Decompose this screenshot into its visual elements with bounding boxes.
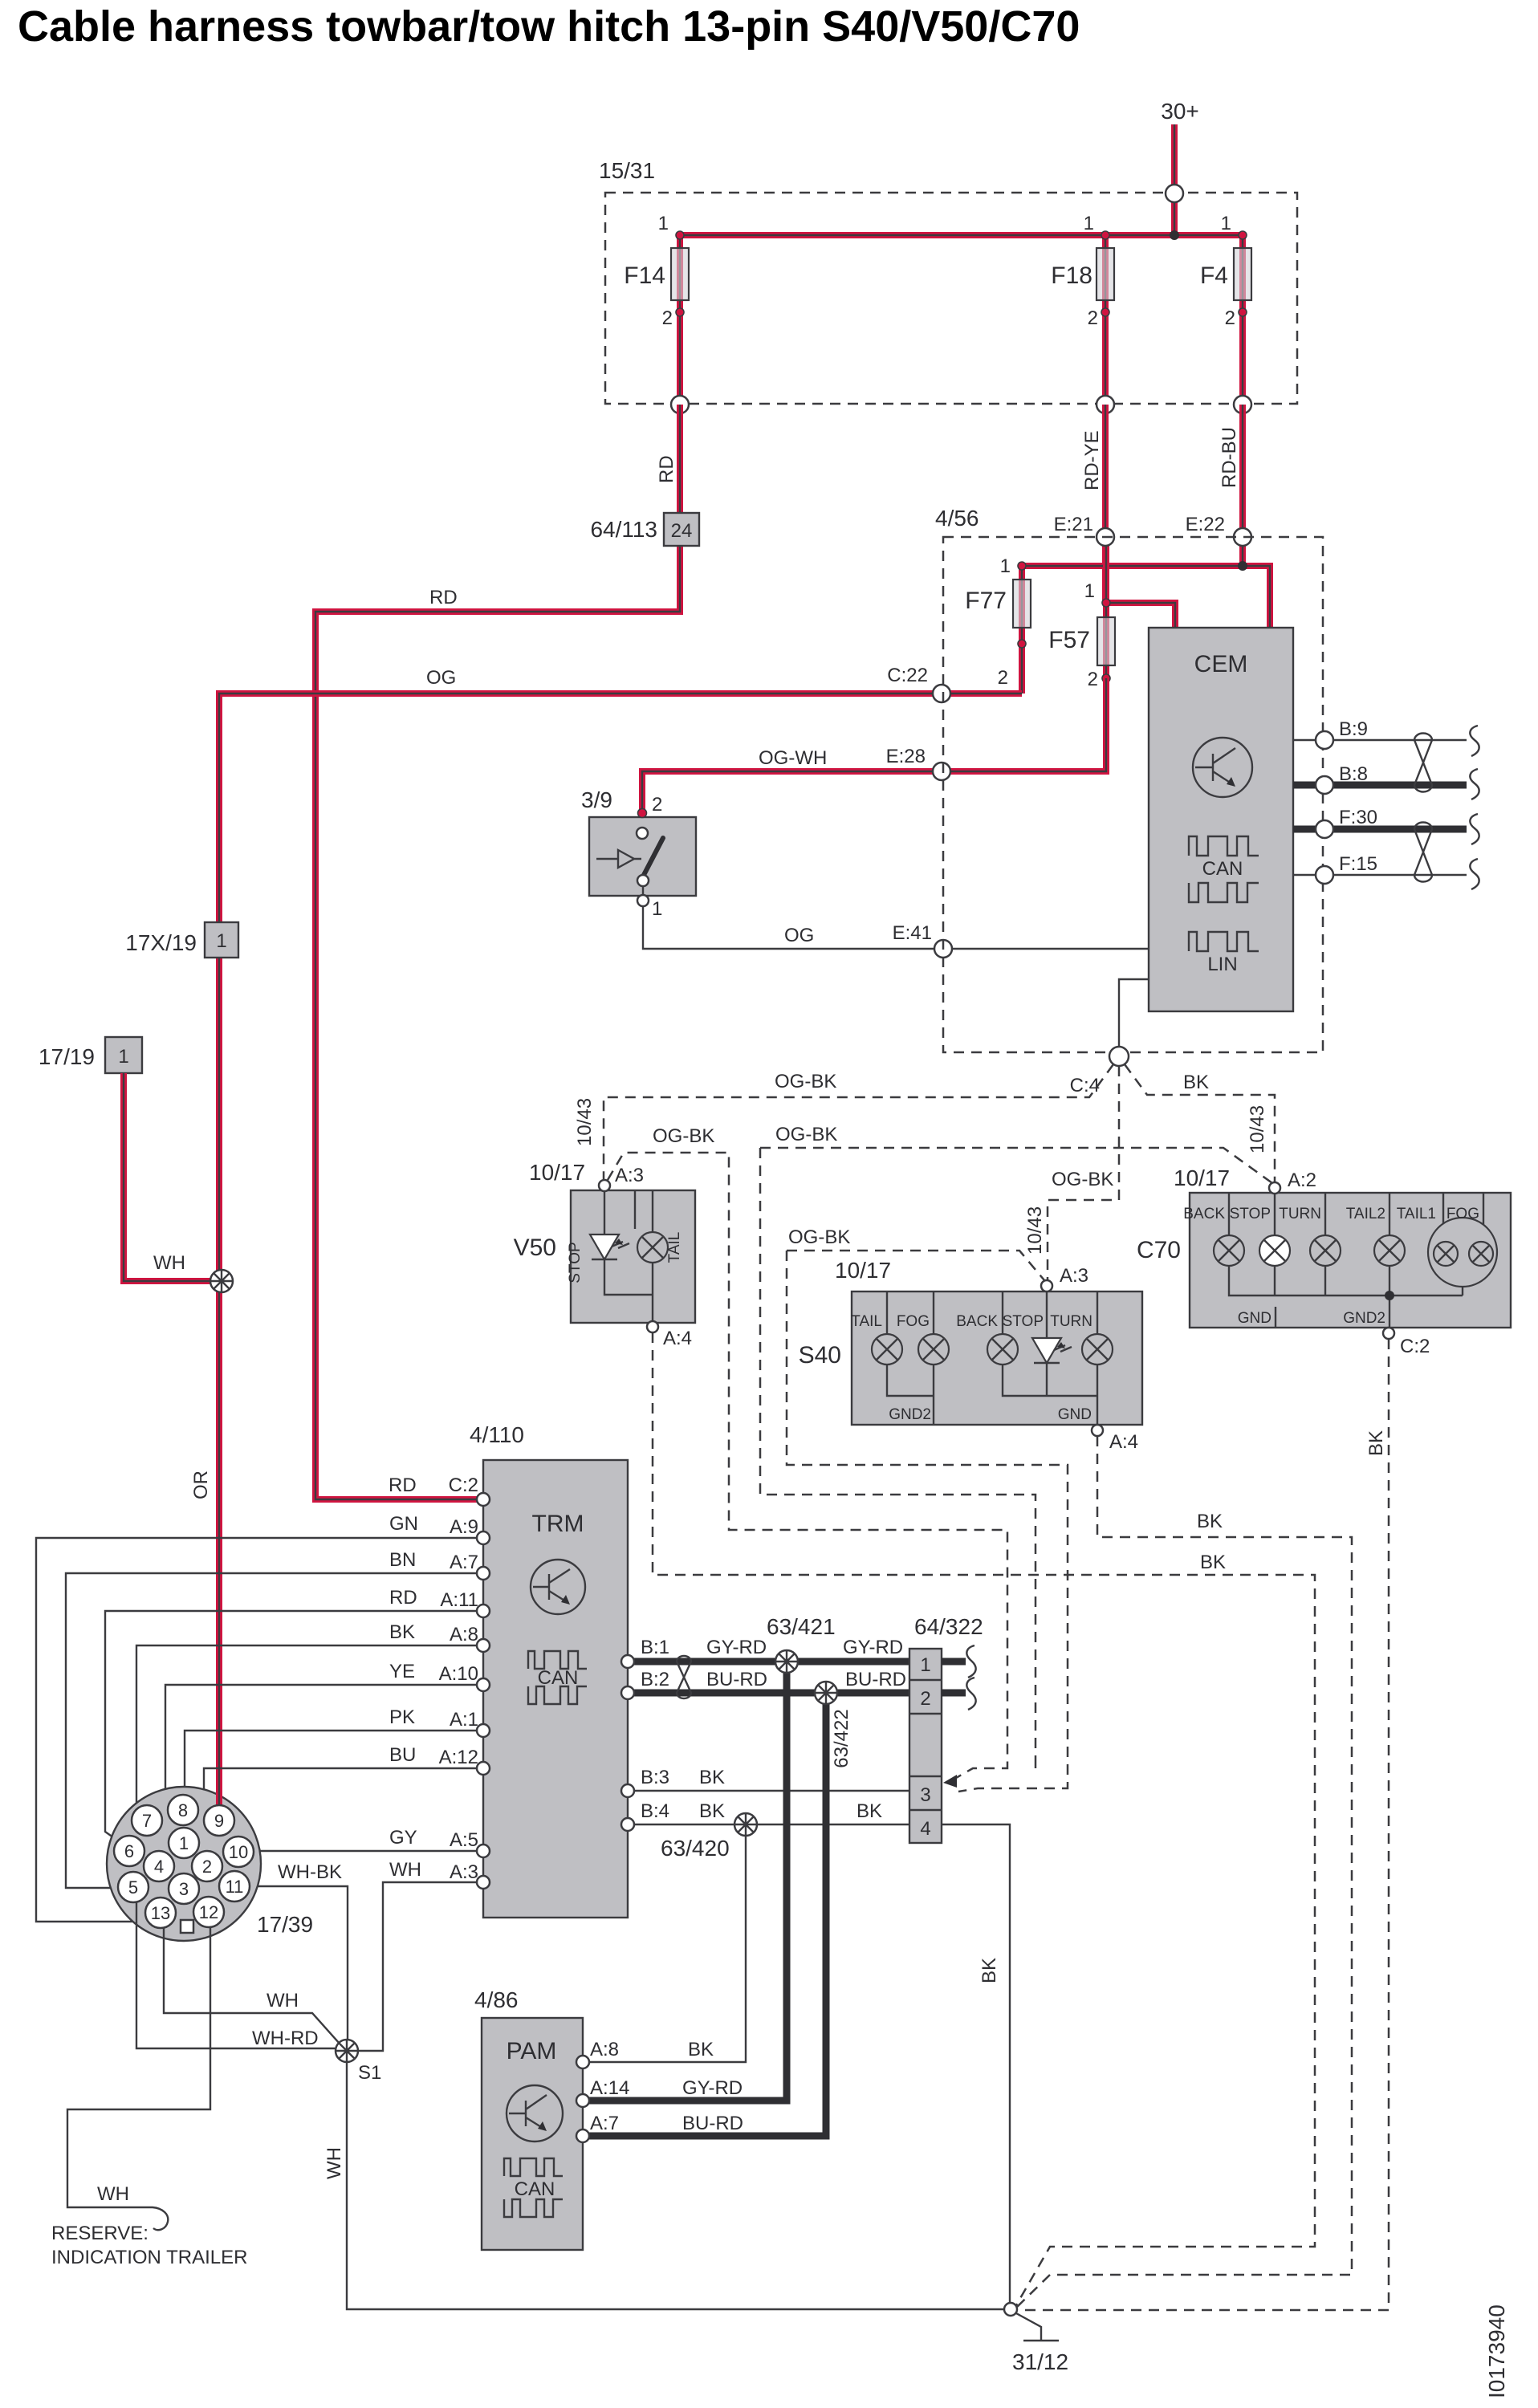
node PAM A:8 — [576, 2039, 714, 2068]
twisted pair B:9/B:8 — [1414, 734, 1432, 792]
svg-text:GY: GY — [389, 1827, 417, 1849]
svg-text:WH-RD: WH-RD — [252, 2028, 319, 2049]
pin 7 — [132, 1805, 162, 1836]
svg-text:A:12: A:12 — [439, 1747, 478, 1768]
svg-text:5: 5 — [128, 1877, 138, 1898]
node PAM A:14 — [576, 2077, 743, 2107]
svg-text:YE: YE — [389, 1661, 415, 1682]
keyway — [181, 1920, 193, 1933]
svg-text:OG: OG — [784, 925, 814, 946]
svg-text:4/86: 4/86 — [474, 1987, 519, 2012]
svg-text:CEM: CEM — [1194, 651, 1248, 677]
svg-text:BK: BK — [389, 1621, 415, 1643]
svg-text:2: 2 — [202, 1857, 212, 1877]
connector 17X/19 pin 1 — [125, 922, 238, 958]
wire red bus F77/F57 into CEM — [1022, 566, 1270, 628]
svg-text:6: 6 — [124, 1841, 134, 1861]
svg-text:TURN: TURN — [1050, 1313, 1092, 1330]
lamp pair TAIL1/FOG (C70) — [1397, 1206, 1497, 1287]
wire BN TRM A:7 to pin 5 — [66, 1549, 483, 1888]
wire YE TRM A:10 to pin 1 — [165, 1661, 483, 1832]
lamp cluster S40 10/17 — [799, 1258, 1142, 1453]
svg-text:OG-WH: OG-WH — [759, 747, 827, 769]
svg-text:63/420: 63/420 — [661, 1836, 730, 1861]
svg-text:E:28: E:28 — [886, 746, 926, 767]
connector 17/39 (13-pin socket) — [107, 1787, 313, 1941]
svg-text:10/43: 10/43 — [574, 1098, 596, 1146]
wire CEM B:8 (thick) — [1293, 763, 1467, 785]
lamp TAIL2 (C70) — [1346, 1206, 1405, 1266]
splice S1 — [336, 2040, 381, 2084]
node TRM A:5 — [477, 1845, 490, 1857]
svg-text:9: 9 — [214, 1811, 224, 1831]
wire BK S40 A:4 to ground (dashed) — [1017, 1436, 1352, 2307]
twisted pair B:1/B:2 — [677, 1656, 691, 1698]
svg-text:2: 2 — [1088, 669, 1098, 690]
svg-text:B:2: B:2 — [641, 1669, 669, 1690]
node E:22 — [1186, 514, 1251, 546]
junction dot 30+/bus — [1170, 230, 1179, 240]
svg-text:OG-BK: OG-BK — [653, 1125, 714, 1147]
svg-text:A:4: A:4 — [1109, 1431, 1138, 1453]
svg-text:2: 2 — [1225, 307, 1235, 329]
wire end F:15 — [1470, 859, 1479, 889]
svg-text:C:4: C:4 — [1070, 1075, 1100, 1096]
node TRM C:2 — [477, 1493, 490, 1506]
op-amp U2 TRM trailer module — [470, 1422, 628, 1918]
wire WH reserve (pin 12) — [51, 1927, 247, 2268]
svg-text:RD: RD — [389, 1587, 417, 1609]
svg-text:WH: WH — [323, 2147, 345, 2179]
pin 2 — [192, 1851, 222, 1881]
svg-text:4/56: 4/56 — [935, 506, 979, 531]
svg-text:64/113: 64/113 — [590, 517, 657, 542]
svg-text:A:1: A:1 — [450, 1709, 478, 1731]
svg-text:V50: V50 — [514, 1235, 556, 1261]
node 15/31 out F4 — [1234, 396, 1251, 413]
svg-text:RD: RD — [656, 455, 677, 483]
pin 10 — [223, 1837, 254, 1867]
svg-text:1: 1 — [1084, 213, 1094, 234]
diode (stop lamp driver) — [590, 1235, 619, 1259]
node B:9 — [1316, 731, 1333, 749]
svg-text:11: 11 — [226, 1877, 244, 1897]
svg-text:F4: F4 — [1200, 262, 1228, 289]
svg-text:C:2: C:2 — [449, 1474, 478, 1496]
svg-text:17/19: 17/19 — [39, 1044, 95, 1069]
svg-text:BK: BK — [1200, 1552, 1226, 1573]
lamp BACK (S40) — [956, 1313, 1018, 1365]
svg-text:STOP: STOP — [1003, 1313, 1044, 1330]
wire GY TRM A:5 to pin 10 — [254, 1827, 483, 1851]
wire OG-WH (E:28 run) — [642, 678, 1106, 813]
svg-text:STOP: STOP — [1230, 1206, 1271, 1222]
node F:15 — [1316, 866, 1333, 884]
wire RD F14 down — [315, 405, 680, 1499]
wire WH 17/19 to splice — [124, 1073, 222, 1281]
svg-text:8: 8 — [178, 1800, 188, 1820]
svg-text:1: 1 — [179, 1833, 189, 1853]
svg-text:GND2: GND2 — [889, 1406, 931, 1423]
svg-text:C:2: C:2 — [1400, 1336, 1430, 1357]
wire GY-RD TRM B:1 to 64/322 pin 1 (thick) — [628, 1637, 909, 1662]
svg-text:RD-BU: RD-BU — [1219, 427, 1240, 488]
svg-text:A:9: A:9 — [450, 1516, 478, 1538]
svg-text:E:22: E:22 — [1186, 514, 1225, 535]
node TRM A:8 — [477, 1639, 490, 1652]
svg-text:S1: S1 — [358, 2062, 381, 2084]
ground 31/12 — [1004, 2303, 1068, 2374]
svg-text:13: 13 — [151, 1903, 170, 1923]
svg-text:BK: BK — [1365, 1430, 1387, 1456]
connector 4/56 (dashed box) — [935, 506, 1323, 1052]
svg-text:2: 2 — [1088, 307, 1098, 329]
lamp TAIL (S40) — [851, 1313, 902, 1365]
svg-text:A:7: A:7 — [590, 2113, 619, 2134]
svg-text:3/9: 3/9 — [581, 787, 612, 812]
svg-text:BK: BK — [699, 1767, 725, 1788]
svg-text:12: 12 — [199, 1902, 218, 1922]
wire BK TRM A:8 to pin 7 — [136, 1621, 483, 1809]
svg-text:F:15: F:15 — [1339, 853, 1377, 875]
wire dashed into 64/322 pin 3 (arrow) — [943, 1763, 1068, 1792]
svg-text:1: 1 — [1084, 580, 1095, 602]
wire end B:9 (continuation squiggle) — [1470, 726, 1479, 756]
node TRM A:7 — [477, 1567, 490, 1580]
splice 63/420 — [661, 1813, 757, 1861]
svg-text:B:8: B:8 — [1339, 763, 1368, 785]
wire WH-RD pin 5 to S1 — [136, 1902, 336, 2049]
node TRM B:3 — [621, 1784, 634, 1797]
node TRM B:2 — [621, 1686, 634, 1699]
TRM CAN symbol — [528, 1651, 587, 1704]
lamp FOG (S40) — [897, 1313, 949, 1365]
connector 17/19 pin 1 — [39, 1037, 142, 1073]
wire red bus 30+ to fuses — [680, 232, 1243, 238]
node TRM A:3 — [477, 1876, 490, 1889]
junction dot RD-BU/bus — [1238, 561, 1247, 571]
svg-text:I0173940: I0173940 — [1484, 2304, 1509, 2398]
svg-text:10/17: 10/17 — [835, 1258, 891, 1283]
wire BU TRM A:12 to pin 2 — [204, 1744, 483, 1852]
PAM CAN symbol — [504, 2158, 563, 2217]
svg-text:LIN: LIN — [1207, 954, 1237, 975]
wire PK TRM A:1 to pin 8 — [185, 1706, 483, 1796]
wire OG-BK C:4 to S40 A:3 (dashed) — [1048, 1066, 1119, 1279]
svg-text:B:4: B:4 — [641, 1800, 669, 1822]
node E:21 — [1054, 514, 1114, 546]
svg-text:4/110: 4/110 — [470, 1422, 524, 1447]
svg-text:10/17: 10/17 — [529, 1160, 585, 1185]
wire OG-BK V50 A:3 second feed (dashed) — [608, 1125, 1007, 1763]
wire B:3 BK TRM to 64/322 pin 3 — [628, 1767, 909, 1791]
node TRM A:1 — [477, 1724, 490, 1737]
node E:28 — [933, 763, 950, 780]
wire end F:30 — [1470, 814, 1479, 844]
svg-text:10: 10 — [229, 1842, 248, 1862]
svg-text:1: 1 — [1000, 555, 1011, 577]
svg-text:B:9: B:9 — [1339, 718, 1368, 740]
wire OG-BK splice 10/43 to C70 A:2 (dashed) — [760, 1124, 1272, 1763]
lamp STOP (C70, white) — [1230, 1206, 1290, 1266]
node E:41 — [934, 940, 952, 958]
svg-text:A:3: A:3 — [615, 1165, 644, 1186]
connector 15/31 (dashed box) — [599, 158, 1297, 404]
wire BU-RD PAM A:7 riser (thick) — [583, 1693, 826, 2136]
svg-text:OG: OG — [426, 667, 456, 689]
lamp cluster C70 10/17 — [1137, 1165, 1511, 1357]
svg-text:3: 3 — [179, 1879, 189, 1899]
fuse F4 — [1200, 213, 1251, 405]
svg-text:WH-BK: WH-BK — [278, 1861, 342, 1883]
svg-text:GY-RD: GY-RD — [843, 1637, 903, 1658]
node C:22 — [933, 685, 950, 702]
svg-text:E:41: E:41 — [893, 922, 932, 944]
svg-text:B:3: B:3 — [641, 1767, 669, 1788]
svg-text:GND: GND — [1058, 1406, 1092, 1423]
wire CEM B:9 — [1293, 718, 1467, 740]
pin 8 — [168, 1795, 198, 1825]
wire WH pin 13 to S1 — [164, 1928, 340, 2044]
wire end pin 1 squiggle — [966, 1645, 975, 1678]
svg-text:A:5: A:5 — [450, 1829, 478, 1851]
node on 15/31 edge (30+) — [1166, 185, 1183, 202]
svg-text:TAIL1: TAIL1 — [1397, 1206, 1436, 1222]
svg-text:GN: GN — [389, 1513, 418, 1535]
wire BK 64/322 pin 4 to ground — [942, 1824, 1010, 2304]
svg-text:GY-RD: GY-RD — [682, 2077, 743, 2099]
fuse F57 — [1048, 537, 1175, 690]
svg-text:BK: BK — [699, 1800, 725, 1822]
svg-text:PK: PK — [389, 1706, 415, 1728]
op-amp U1 CEM control module — [1149, 628, 1293, 1011]
svg-text:BK: BK — [688, 2039, 714, 2060]
fuse F14 — [624, 213, 689, 405]
pin 12 — [193, 1897, 224, 1927]
pin 4 — [144, 1851, 174, 1881]
svg-text:2: 2 — [920, 1688, 930, 1710]
splice WH/OR — [210, 1270, 233, 1292]
svg-text:B:1: B:1 — [641, 1637, 669, 1658]
svg-text:A:14: A:14 — [590, 2077, 629, 2099]
svg-text:E:21: E:21 — [1054, 514, 1093, 535]
svg-text:31/12: 31/12 — [1012, 2349, 1068, 2374]
wire BK PAM A:8 riser — [583, 1824, 746, 2062]
wire RD-YE F18 to E:21/F57 — [1102, 405, 1109, 603]
wire 64/322 pin 1 out (thick) — [942, 1658, 966, 1666]
wire RD-BU F4 to E:22 — [1239, 405, 1246, 566]
wire BK C70 C:2 to ground (dashed) — [1018, 1339, 1389, 2310]
wire 64/322 pin 2 out (thick) — [942, 1690, 966, 1697]
svg-text:RESERVE:: RESERVE: — [51, 2223, 149, 2244]
svg-text:A:3: A:3 — [450, 1861, 478, 1883]
pin 9 — [204, 1805, 234, 1836]
lamp TURN (S40) — [1050, 1313, 1113, 1365]
svg-text:TURN: TURN — [1279, 1206, 1321, 1222]
wire BU-RD TRM B:2 to 64/322 pin 2 (thick) — [628, 1669, 909, 1693]
svg-text:CAN: CAN — [515, 2178, 555, 2200]
pin 1 — [169, 1828, 199, 1858]
svg-text:30+: 30+ — [1161, 99, 1199, 124]
twisted pair F:30/F:15 — [1414, 823, 1432, 882]
pin 3 — [169, 1873, 199, 1904]
node A:3 (V50) — [599, 1180, 610, 1191]
svg-text:TAIL2: TAIL2 — [1346, 1206, 1385, 1222]
svg-text:F77: F77 — [965, 588, 1007, 614]
svg-text:STOP: STOP — [567, 1242, 584, 1283]
node A:2 (C70) — [1269, 1182, 1280, 1194]
svg-text:F14: F14 — [624, 262, 665, 289]
wire WH-BK pin 11 to splice S1 — [250, 1861, 348, 2040]
wire end B:8 — [1470, 769, 1479, 799]
svg-text:BU-RD: BU-RD — [682, 2113, 743, 2134]
wire B:4 BK TRM to 64/322 pin 4 — [628, 1800, 909, 1824]
svg-text:GND: GND — [1238, 1310, 1271, 1327]
node A:4 (S40) — [1092, 1425, 1103, 1436]
svg-text:BK: BK — [1197, 1511, 1223, 1532]
wire OG switch to E:41/CEM — [643, 906, 1149, 949]
svg-text:FOG: FOG — [1446, 1206, 1479, 1222]
wire OG-BK splice 10/43 to S40 A:3 (dashed) — [787, 1226, 1068, 1784]
lamp BACK (C70) — [1183, 1206, 1244, 1266]
svg-text:2: 2 — [652, 794, 662, 816]
svg-text:7: 7 — [142, 1811, 152, 1831]
node F:30 — [1316, 820, 1333, 838]
svg-text:63/422: 63/422 — [831, 1709, 852, 1767]
wire BK V50 A:4 to ground (dashed) — [653, 1332, 1315, 2305]
svg-text:1: 1 — [1221, 213, 1231, 234]
node PAM A:7 — [576, 2113, 743, 2142]
svg-text:BACK: BACK — [956, 1313, 998, 1330]
wire WH TRM A:3 to splice S1 — [358, 1859, 483, 2051]
svg-text:BU-RD: BU-RD — [706, 1669, 767, 1690]
node B:8 — [1316, 776, 1333, 794]
wire CEM F:30 (thick) — [1293, 807, 1467, 829]
svg-text:A:11: A:11 — [440, 1589, 478, 1611]
svg-text:F18: F18 — [1051, 262, 1092, 289]
svg-text:TAIL: TAIL — [851, 1313, 882, 1330]
node 30+ supply — [1161, 99, 1199, 235]
svg-text:3: 3 — [920, 1784, 930, 1806]
svg-text:1: 1 — [920, 1654, 930, 1676]
CEM transistor icon — [1193, 738, 1252, 797]
svg-text:A:7: A:7 — [450, 1552, 478, 1573]
svg-text:4: 4 — [920, 1818, 930, 1840]
node A:3 (S40) — [1041, 1280, 1052, 1291]
svg-text:WH: WH — [153, 1252, 185, 1274]
svg-text:A:8: A:8 — [450, 1624, 478, 1645]
svg-text:24: 24 — [671, 520, 693, 542]
svg-text:WH: WH — [97, 2183, 129, 2205]
svg-text:Cable harness towbar/tow hitch: Cable harness towbar/tow hitch 13-pin S4… — [18, 2, 1080, 51]
svg-text:2: 2 — [998, 667, 1008, 689]
lamp TAIL (V50) — [637, 1232, 683, 1263]
wire OG (C:22 run) — [219, 667, 1022, 1806]
svg-text:63/421: 63/421 — [767, 1614, 836, 1639]
svg-text:WH: WH — [267, 1990, 299, 2011]
svg-text:OG-BK: OG-BK — [775, 1124, 837, 1145]
svg-text:GY-RD: GY-RD — [706, 1637, 767, 1658]
svg-text:RD-YE: RD-YE — [1081, 430, 1103, 490]
svg-text:C:22: C:22 — [887, 665, 928, 686]
svg-text:GND2: GND2 — [1343, 1310, 1385, 1327]
CEM LIN symbol — [1189, 932, 1259, 975]
pin 5 — [118, 1872, 149, 1902]
pin 11 — [219, 1871, 250, 1902]
svg-text:BK: BK — [979, 1958, 1000, 1983]
wire WH S1 to ground — [323, 2062, 1004, 2309]
wire CEM ground exit to C:4 — [1119, 979, 1149, 1052]
svg-text:TAIL: TAIL — [666, 1232, 683, 1263]
svg-text:10/43: 10/43 — [1024, 1206, 1046, 1255]
svg-text:2: 2 — [662, 307, 673, 329]
svg-text:BACK: BACK — [1183, 1206, 1225, 1222]
svg-text:WH: WH — [389, 1859, 421, 1881]
svg-text:BU-RD: BU-RD — [845, 1669, 906, 1690]
svg-text:17/39: 17/39 — [257, 1912, 313, 1937]
node 15/31 out F18 — [1097, 396, 1114, 413]
svg-text:C70: C70 — [1137, 1237, 1181, 1263]
lamp cluster V50 10/17 — [514, 1160, 695, 1349]
svg-text:OG-BK: OG-BK — [775, 1071, 836, 1092]
node TRM A:11 — [477, 1605, 490, 1617]
PAM transistor icon — [507, 2085, 563, 2142]
connector 64/113 pin 24 — [590, 513, 699, 546]
switch 3/9 (brake light switch) — [581, 787, 696, 920]
svg-text:OR: OR — [190, 1470, 212, 1499]
svg-text:BN: BN — [389, 1549, 416, 1571]
svg-text:1: 1 — [118, 1046, 128, 1068]
svg-text:PAM: PAM — [507, 2038, 557, 2064]
svg-text:1: 1 — [652, 898, 662, 920]
node TRM A:12 — [477, 1762, 490, 1775]
wire OG-BK C:4 to V50 A:3 (dashed) — [604, 1064, 1113, 1179]
CEM CAN symbol — [1189, 836, 1259, 902]
node TRM A:10 — [477, 1678, 490, 1691]
node 15/31 out F14 — [671, 396, 689, 413]
wire CEM F:15 — [1293, 853, 1467, 875]
svg-text:17X/19: 17X/19 — [125, 930, 197, 955]
wire BK C:4 to C70 A:2 (dashed) — [1125, 1064, 1275, 1182]
svg-text:RD: RD — [389, 1474, 417, 1496]
wire end pin 2 squiggle — [966, 1678, 975, 1710]
fuse F77 — [965, 555, 1031, 694]
svg-text:10/43: 10/43 — [1247, 1105, 1268, 1153]
diode STOP (S40) — [1003, 1313, 1072, 1363]
wire GY-RD PAM A:14 riser (thick) — [583, 1662, 787, 2101]
lamp TURN (C70) — [1279, 1206, 1341, 1266]
svg-text:CAN: CAN — [1202, 858, 1243, 880]
svg-text:INDICATION TRAILER: INDICATION TRAILER — [51, 2247, 247, 2268]
svg-text:4: 4 — [154, 1857, 164, 1877]
svg-text:F:30: F:30 — [1339, 807, 1377, 828]
node TRM B:1 — [621, 1655, 634, 1668]
svg-text:BK: BK — [856, 1800, 882, 1822]
svg-text:F57: F57 — [1048, 627, 1090, 653]
svg-text:S40: S40 — [799, 1342, 841, 1369]
svg-text:OG-BK: OG-BK — [1052, 1169, 1113, 1190]
wire OR segment into pin 9 — [216, 1780, 222, 1806]
wire GN TRM A:9 to pin 13 — [36, 1513, 483, 1922]
pin 6 — [114, 1836, 144, 1866]
svg-text:TRM: TRM — [532, 1511, 584, 1537]
node TRM B:4 — [621, 1818, 634, 1831]
pin 13 — [145, 1898, 176, 1928]
op-amp U3 PAM parking assist module — [474, 1987, 583, 2250]
svg-text:15/31: 15/31 — [599, 158, 655, 183]
svg-text:RD: RD — [429, 587, 458, 608]
svg-text:A:4: A:4 — [663, 1328, 692, 1349]
